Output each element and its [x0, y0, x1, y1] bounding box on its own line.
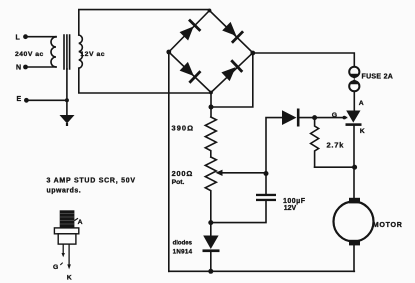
SCR package cathode lead — [67, 244, 71, 269]
wire bottom vertex to right vertex — [211, 53, 253, 107]
junction wiper node — [264, 171, 269, 176]
junction bridge top vertex — [208, 9, 212, 13]
transformer T1 core — [64, 35, 70, 69]
junction diode-bottom rail — [208, 269, 213, 274]
diode D2 bridge top-right — [221, 20, 244, 43]
ground symbol — [60, 115, 75, 126]
capacitor C1 plates — [256, 194, 276, 201]
wire gate diode node to SCR gate — [298, 117, 346, 119]
SCR package stud — [60, 210, 75, 228]
diode D4 bridge bottom-right — [220, 59, 243, 82]
svg-text:G: G — [53, 264, 58, 271]
wire capacitor bottom to diode node — [211, 201, 266, 223]
motor M1 body — [334, 202, 374, 242]
svg-text:1N914: 1N914 — [173, 248, 193, 255]
junction cathode node — [352, 165, 357, 170]
motor brush top — [349, 198, 360, 204]
motor brush bottom — [349, 240, 360, 246]
wire core to earth — [66, 69, 68, 115]
SCR Q1 cathode bar — [346, 123, 362, 126]
junction gate wire dot — [343, 116, 347, 120]
terminal L — [23, 34, 28, 39]
svg-text:upwards.: upwards. — [47, 187, 82, 194]
svg-text:K: K — [360, 128, 365, 135]
SCR package body — [58, 234, 76, 244]
wire diode D5 to bottom rail — [210, 252, 212, 272]
wire L to primary — [26, 36, 57, 38]
junction gate diode / 2.7k — [312, 115, 317, 120]
junction cap-diode node — [208, 220, 213, 225]
SCR package gate lead — [62, 244, 65, 257]
diode D3 bridge bottom-left — [178, 60, 201, 83]
wire N to primary — [26, 66, 57, 68]
resistor R1 390ohm — [205, 117, 216, 157]
wire secondary top to bridge top — [79, 10, 210, 35]
svg-text:12V ac: 12V ac — [80, 51, 105, 58]
wire SCR cathode down to motor — [353, 125, 355, 198]
wire E to core drop — [26, 99, 67, 101]
svg-text:A: A — [78, 219, 83, 226]
wire motor bottom lead — [353, 245, 355, 271]
svg-text:240V ac: 240V ac — [15, 51, 44, 58]
wire corner to gate diode anode — [266, 118, 282, 173]
wire left rail (bridge negative) — [168, 52, 170, 271]
svg-text:N: N — [16, 65, 21, 72]
potentiometer VR1 200ohm track — [205, 157, 216, 236]
SCR package flange — [54, 228, 78, 234]
diode D5 1N914 — [203, 236, 220, 253]
resistor R2 2.7k — [311, 118, 319, 168]
svg-text:3 AMP STUD SCR, 50V: 3 AMP STUD SCR, 50V — [47, 177, 136, 184]
transformer T1 primary winding — [51, 37, 56, 67]
svg-text:FUSE 2A: FUSE 2A — [362, 73, 394, 80]
svg-text:E: E — [17, 96, 22, 103]
wire pot wiper — [220, 172, 266, 174]
terminal N — [23, 65, 28, 70]
SCR package anode tick — [74, 218, 78, 220]
svg-text:390Ω: 390Ω — [172, 124, 195, 133]
wire fuse to SCR anode — [353, 92, 355, 111]
svg-text:G: G — [332, 112, 337, 119]
wire 2.7k bottom to cathode node — [315, 166, 355, 168]
SCR Q1 triangle — [346, 111, 360, 123]
junction bridge left vertex — [166, 50, 171, 55]
diode D6 1N914 gate — [282, 109, 300, 127]
terminal E — [24, 98, 29, 103]
wire bridge right to fuse — [253, 53, 354, 67]
svg-text:200Ω: 200Ω — [172, 169, 193, 178]
svg-text:A: A — [359, 100, 364, 107]
SCR package G tick — [60, 263, 62, 265]
wire bottom rail — [169, 270, 354, 272]
diode D1 bridge top-left — [178, 19, 201, 42]
svg-text:Pot.: Pot. — [172, 179, 185, 186]
wire wiper node down to capacitor — [265, 173, 267, 194]
transformer T1 secondary winding — [79, 35, 83, 68]
pot wiper arrow — [216, 170, 223, 176]
junction bridge right vertex — [250, 51, 255, 56]
svg-text:2.7k: 2.7k — [327, 140, 345, 149]
junction node below bridge — [209, 105, 214, 110]
wire bridge bottom stub to chain — [210, 93, 212, 117]
wire secondary bottom to bridge bottom — [79, 68, 211, 93]
junction core-earth — [65, 98, 69, 102]
fuse F1 body — [349, 67, 359, 92]
svg-text:K: K — [67, 274, 72, 281]
svg-text:12V: 12V — [284, 205, 297, 212]
svg-text:diodes: diodes — [173, 241, 193, 247]
bridge diamond edges — [169, 11, 253, 93]
svg-text:L: L — [16, 34, 21, 41]
junction bridge bottom vertex — [209, 91, 213, 95]
svg-text:MOTOR: MOTOR — [373, 221, 403, 229]
fuse F1 element — [349, 74, 359, 84]
